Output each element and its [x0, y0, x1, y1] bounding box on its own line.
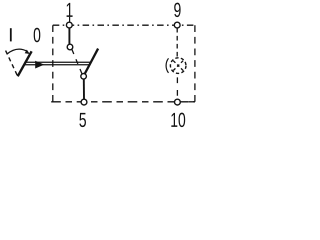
terminal label 9 — [174, 3, 180, 17]
actuator double link line upper — [25, 61, 91, 63]
lamp left parenthesis arc — [166, 58, 168, 73]
position label I — [10, 28, 12, 41]
moving blade closed position (dashed) — [72, 49, 82, 73]
wire terminal 1 down to fixed contact — [68, 28, 70, 45]
switch housing right border — [194, 25, 196, 102]
wire terminal 9 to lamp (dashed) — [176, 28, 178, 58]
lamp X stroke 1 — [173, 61, 183, 71]
moving blade open position (solid) — [85, 49, 98, 74]
switch housing bottom border corner segment — [188, 101, 195, 103]
terminal label 10 — [171, 113, 185, 127]
wire stub label 1 to terminal 1 — [69, 17, 71, 22]
terminal 10 circle — [175, 99, 181, 105]
wire lamp to terminal 10 (dashed) — [176, 73, 178, 100]
switch housing bottom border — [51, 101, 195, 103]
switch housing top border (dash-dot) — [53, 24, 195, 26]
terminal 5 circle — [81, 99, 87, 105]
terminal 1 circle — [66, 22, 72, 28]
actuation direction arrowhead — [35, 61, 44, 69]
terminal 9 circle — [174, 22, 180, 28]
pivot contact circle — [81, 74, 87, 80]
wire pivot to terminal 5 — [83, 79, 85, 100]
terminal label 5 — [79, 113, 86, 127]
toggle arc arrowhead — [25, 50, 30, 54]
actuator double link line lower — [24, 64, 90, 66]
fixed contact circle — [67, 44, 73, 50]
actuator lever dashed (position I) — [6, 51, 18, 77]
illumination lamp circle (dashed) — [170, 58, 186, 74]
lamp X stroke 2 — [173, 61, 183, 71]
switch housing left border — [52, 25, 54, 102]
toggle direction arc — [7, 49, 28, 54]
position label 0 — [34, 28, 41, 42]
terminal label 1 — [67, 3, 73, 17]
actuator lever solid (position 0) — [18, 51, 32, 76]
